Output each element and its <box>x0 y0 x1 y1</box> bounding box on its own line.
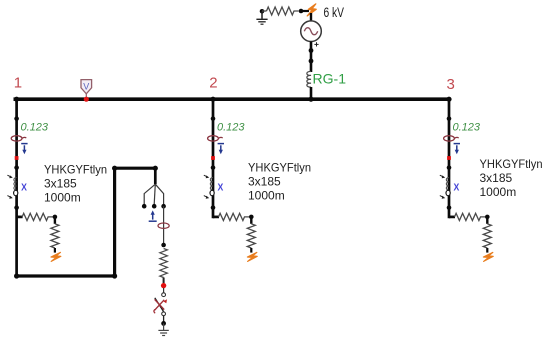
wire <box>163 288 165 293</box>
svg-text:1000m: 1000m <box>248 189 285 203</box>
junction dot <box>308 97 313 102</box>
junction dot <box>153 166 158 171</box>
junction dot <box>210 97 215 102</box>
CT ellipse (earthing) <box>158 223 169 228</box>
wire (earthing chain) <box>163 206 165 245</box>
junction dot <box>211 116 216 121</box>
red node marker (node 1) <box>15 156 19 160</box>
node dot (voltmeter tap, red) <box>84 97 89 102</box>
resistor load shunt (node 3) <box>483 224 491 248</box>
junction dot <box>309 59 314 64</box>
wire: stub to cable fork <box>154 168 157 184</box>
resistor earthing <box>160 249 168 278</box>
cable symbol (node 3) <box>440 175 460 199</box>
junction dot <box>447 205 452 210</box>
bus line <box>14 97 451 101</box>
CT ellipse (node 2) <box>208 136 223 141</box>
wire <box>486 248 488 253</box>
wire: feeder drop node 2 <box>212 99 215 218</box>
wire <box>310 87 313 99</box>
load arrow (node 2) <box>247 252 257 261</box>
svg-text:YHKGYFtlyn: YHKGYFtlyn <box>480 157 543 171</box>
svg-text:1000m: 1000m <box>44 191 81 205</box>
junction dot <box>447 116 452 121</box>
svg-text:3x185: 3x185 <box>44 177 77 191</box>
junction dot <box>446 97 451 102</box>
junction dot <box>447 165 452 170</box>
load arrow (node 3) <box>483 252 493 261</box>
flow arrow down (node 1) <box>21 144 27 155</box>
red node marker (node 2) <box>211 156 215 160</box>
svg-text:X: X <box>454 182 460 193</box>
junction dot <box>112 166 117 171</box>
wire <box>310 13 312 22</box>
red marker (earthing) <box>161 283 166 288</box>
load arrow (node 1) <box>51 252 61 261</box>
svg-text:3x185: 3x185 <box>248 175 281 189</box>
svg-text:RG-1: RG-1 <box>313 71 347 87</box>
reactor RG-1 coil <box>307 71 311 87</box>
junction dot (bottom right corner) <box>112 273 117 278</box>
svg-text:1000m: 1000m <box>480 185 517 199</box>
svg-text:6 kV: 6 kV <box>324 5 345 20</box>
flow arrow up (earthing) <box>149 210 157 221</box>
prong dot A <box>142 204 147 209</box>
wire <box>163 316 165 322</box>
wire corner (node 3 load) <box>449 216 455 219</box>
resistor load series (node 3) <box>455 213 486 220</box>
junction dot <box>14 97 19 102</box>
AC source G1 <box>301 21 322 42</box>
resistor RS (source internal resistance) <box>267 7 299 15</box>
svg-text:1: 1 <box>14 74 22 91</box>
junction dot <box>161 321 166 326</box>
flow arrow down (node 2) <box>218 144 224 155</box>
wire <box>250 217 252 224</box>
junction dot (bottom left corner) <box>14 273 19 278</box>
svg-text:0.123: 0.123 <box>453 122 481 134</box>
svg-text:YHKGYFtlyn: YHKGYFtlyn <box>248 161 311 175</box>
resistor load series (node 2) <box>219 213 250 220</box>
wire <box>310 42 313 73</box>
svg-text:2: 2 <box>209 74 217 91</box>
fault flash marker <box>307 4 316 16</box>
wire <box>486 217 488 224</box>
wire: feeder drop node 3 <box>448 99 451 218</box>
junction dot <box>14 165 19 170</box>
svg-text:0.123: 0.123 <box>217 122 245 134</box>
wire corner (node 2 load) <box>213 216 219 219</box>
junction dot <box>211 205 216 210</box>
wire <box>54 248 56 253</box>
ground (source neutral) <box>256 9 267 24</box>
prong dot B <box>152 204 157 209</box>
junction dot <box>249 215 254 220</box>
svg-text:YHKGYFtlyn: YHKGYFtlyn <box>44 163 107 177</box>
svg-text:3x185: 3x185 <box>480 171 513 185</box>
wire <box>250 248 252 253</box>
cable symbol (node 1) <box>7 175 27 199</box>
junction dot <box>485 215 490 220</box>
voltmeter V <box>81 80 92 98</box>
flow arrow down (node 3) <box>454 144 460 155</box>
wire <box>301 10 309 12</box>
wire: top tie <box>113 167 155 170</box>
resistor load series (node 1) <box>22 213 53 220</box>
wire: riser <box>113 167 116 278</box>
switch S1 (open, with X marker) <box>154 293 167 316</box>
cable symbol (node 2) <box>204 175 224 199</box>
junction dot <box>309 48 314 53</box>
junction dot <box>14 205 19 210</box>
junction dot <box>299 9 304 14</box>
ground (earthing) <box>158 323 168 335</box>
svg-text:X: X <box>218 182 224 193</box>
svg-text:0.123: 0.123 <box>21 122 49 134</box>
prong dot C <box>161 204 166 209</box>
resistor load shunt (node 2) <box>247 224 255 248</box>
svg-text:X: X <box>21 182 27 193</box>
wire <box>163 278 165 284</box>
CT ellipse (node 1) <box>11 136 26 141</box>
junction dot <box>53 215 58 220</box>
svg-text:3: 3 <box>447 76 455 93</box>
resistor load shunt (node 1) <box>51 224 59 248</box>
CT ellipse (node 3) <box>444 136 459 141</box>
svg-text:V: V <box>83 81 89 91</box>
polarity + <box>314 42 318 46</box>
wire: feeder drop node 1 <box>15 99 18 277</box>
junction dot <box>14 116 19 121</box>
cable fork (3 prongs) <box>144 184 163 204</box>
red node marker (node 3) <box>447 156 451 160</box>
junction dot <box>211 165 216 170</box>
wire corner (node 1 load) <box>17 216 23 219</box>
wire: bottom tie <box>17 274 115 277</box>
junction dot <box>161 243 166 248</box>
wire <box>54 217 56 224</box>
